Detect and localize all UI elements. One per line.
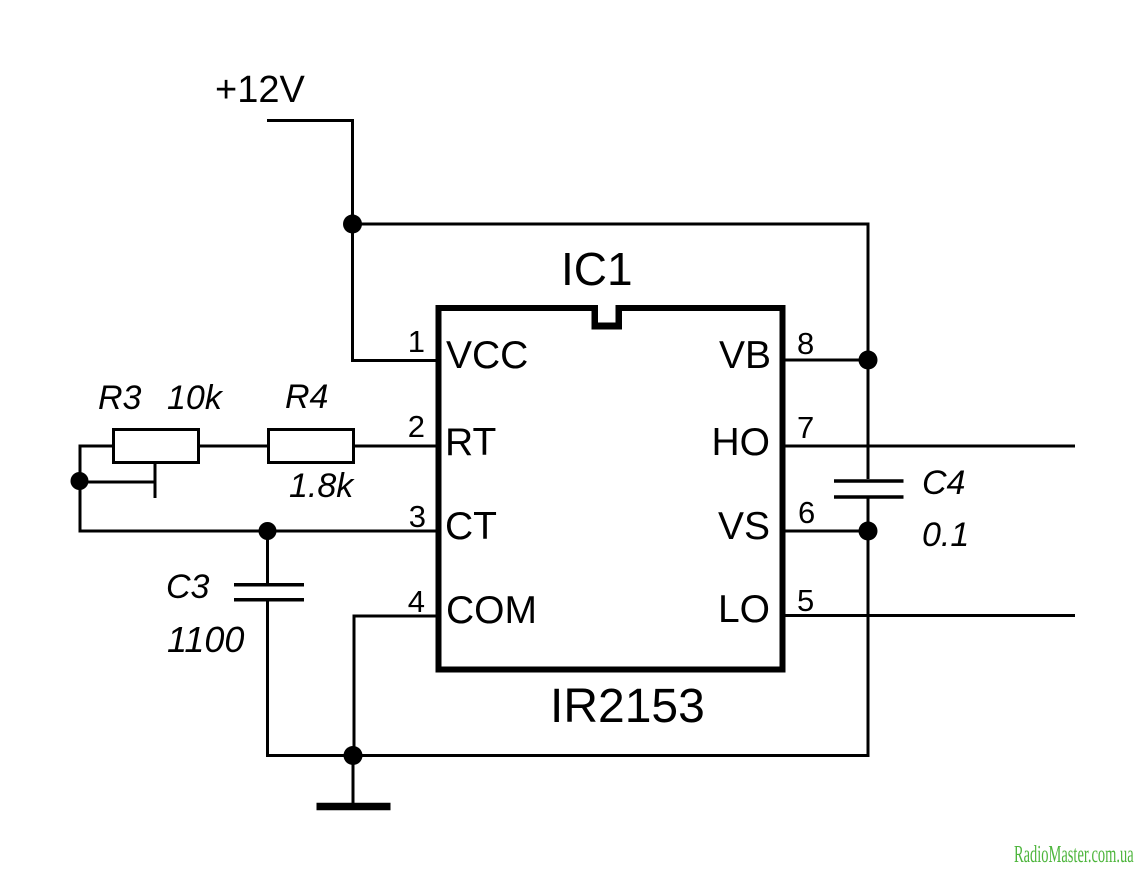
svg-text:RT: RT xyxy=(445,421,496,464)
IC IC1: notch gap xyxy=(598,303,616,314)
wire C3 lower lead xyxy=(266,602,269,758)
wire pin8 VB stub xyxy=(783,359,868,362)
wire top bus from +12V node to right bus xyxy=(351,223,868,226)
IC IC1: notch bottom bar xyxy=(592,323,623,330)
wire COM vertical down to ground bus xyxy=(353,615,356,756)
svg-text:5: 5 xyxy=(797,583,814,618)
svg-text:IR2153: IR2153 xyxy=(550,680,705,733)
wire R3 left terminal stub xyxy=(79,445,112,448)
junction dot C3 top node xyxy=(259,522,277,540)
svg-text:VS: VS xyxy=(718,505,770,548)
wire right bus lower (C4 to bottom bus) xyxy=(867,499,870,758)
junction dot VB node xyxy=(859,351,878,370)
wire +12V horizontal stub xyxy=(267,119,353,122)
svg-text:C4: C4 xyxy=(922,464,965,502)
capacitor C3 bottom plate xyxy=(234,598,304,602)
wire left vertical down to CT line xyxy=(79,445,82,533)
svg-text:1: 1 xyxy=(408,324,425,359)
wire pin7 HO output xyxy=(783,445,1075,448)
svg-text:0.1: 0.1 xyxy=(922,516,969,554)
svg-text:COM: COM xyxy=(446,589,537,632)
svg-text:VB: VB xyxy=(719,334,771,377)
svg-text:R4: R4 xyxy=(285,378,328,416)
svg-text:CT: CT xyxy=(445,505,497,548)
resistor R3 body (trimmer) xyxy=(114,430,199,463)
svg-text:10k: 10k xyxy=(167,379,224,417)
capacitor C4 bottom plate xyxy=(834,495,904,499)
svg-text:C3: C3 xyxy=(166,568,210,606)
resistor R4 body xyxy=(269,430,354,463)
wire CT line from left node to pin3 xyxy=(79,530,439,533)
svg-text:1100: 1100 xyxy=(167,619,244,660)
svg-text:7: 7 xyxy=(797,410,814,445)
ground lead xyxy=(352,756,355,804)
junction dot VS node xyxy=(859,522,878,541)
wire C3 upper lead xyxy=(266,531,269,583)
IC IC1 (IR2153) body outline xyxy=(439,308,783,670)
svg-text:IC1: IC1 xyxy=(561,243,633,295)
wire +12V vertical down to VCC pin level xyxy=(351,119,354,361)
svg-text:R3: R3 xyxy=(98,379,142,417)
wire pin6 VS stub xyxy=(783,530,868,533)
wire pin4 COM stub xyxy=(353,615,439,618)
junction dot node +12V/top-bus xyxy=(343,215,362,234)
ground bar xyxy=(317,803,391,811)
capacitor C3 top plate xyxy=(234,583,304,587)
junction dot R3 wiper node xyxy=(71,472,89,490)
junction dot ground node xyxy=(344,746,363,765)
wire right bus upper (top bus to C4) xyxy=(867,223,870,480)
wire pin5 LO output xyxy=(783,614,1075,617)
svg-text:8: 8 xyxy=(797,326,814,361)
wire R4 to pin2 RT xyxy=(354,445,438,448)
svg-text:+12V: +12V xyxy=(215,69,305,111)
svg-text:LO: LO xyxy=(718,588,770,631)
wire pin1 VCC stub xyxy=(351,359,438,362)
svg-text:HO: HO xyxy=(712,421,771,464)
wire bottom bus xyxy=(266,754,868,757)
svg-text:1.8k: 1.8k xyxy=(289,467,355,505)
svg-text:4: 4 xyxy=(408,584,425,619)
svg-text:VCC: VCC xyxy=(446,334,528,377)
IC IC1: notch left wall xyxy=(592,306,599,330)
svg-text:RadioMaster.com.ua: RadioMaster.com.ua xyxy=(1014,841,1134,868)
IC IC1: notch right wall xyxy=(616,306,623,330)
svg-text:6: 6 xyxy=(798,495,815,530)
svg-text:2: 2 xyxy=(408,409,425,444)
svg-text:3: 3 xyxy=(409,499,426,534)
resistor R3 wiper vertical tap xyxy=(154,464,157,498)
wire R3 to R4 xyxy=(199,445,267,448)
capacitor C4 top plate xyxy=(834,479,904,483)
wire R3 wiper to left node xyxy=(79,481,155,484)
